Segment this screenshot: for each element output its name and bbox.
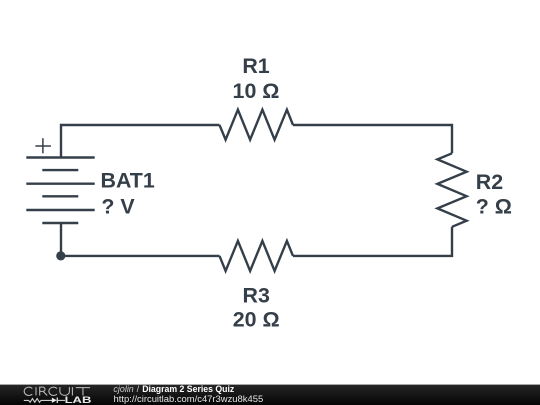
svg-text:R2: R2 bbox=[476, 170, 503, 194]
svg-text:Diagram 2 Series Quiz: Diagram 2 Series Quiz bbox=[142, 384, 234, 394]
svg-text:BAT1: BAT1 bbox=[101, 169, 155, 193]
svg-text:20 Ω: 20 Ω bbox=[233, 308, 280, 332]
resistor R1 bbox=[220, 110, 294, 140]
resistor R2 bbox=[437, 153, 466, 227]
svg-text:R1: R1 bbox=[242, 54, 269, 78]
svg-text:? Ω: ? Ω bbox=[476, 194, 512, 218]
wire: bottom wire from R3 to node bbox=[61, 255, 220, 257]
battery BAT1 plates bbox=[26, 158, 94, 224]
svg-text:LAB: LAB bbox=[65, 395, 92, 405]
wire: top wire from R1 to top-right corner and down to R2 bbox=[293, 125, 452, 153]
footer logo resistor-diode squiggle bbox=[24, 398, 65, 404]
svg-text:cjolin: cjolin bbox=[113, 384, 133, 394]
svg-text:10 Ω: 10 Ω bbox=[233, 79, 280, 103]
svg-text:http://circuitlab.com/c47r3wzu: http://circuitlab.com/c47r3wzu8k455 bbox=[114, 394, 264, 404]
footer black bar bbox=[0, 385, 540, 405]
svg-text:? V: ? V bbox=[101, 194, 135, 218]
wire: right side below R2 to bottom-right corner and left to R3 bbox=[293, 227, 452, 256]
svg-text:/: / bbox=[137, 384, 140, 394]
node dot (junction) bbox=[56, 251, 65, 260]
wire: battery positive lead up and top wire to R1 bbox=[61, 125, 220, 158]
wire: battery negative lead down to node bbox=[60, 223, 62, 256]
footer logo diode triangle bbox=[52, 398, 57, 403]
footer logo CIRCUIT wordmark (thin outline letters) bbox=[24, 387, 90, 395]
battery plus sign bbox=[35, 138, 51, 153]
resistor R3 bbox=[220, 241, 294, 271]
svg-text:R3: R3 bbox=[243, 283, 270, 307]
